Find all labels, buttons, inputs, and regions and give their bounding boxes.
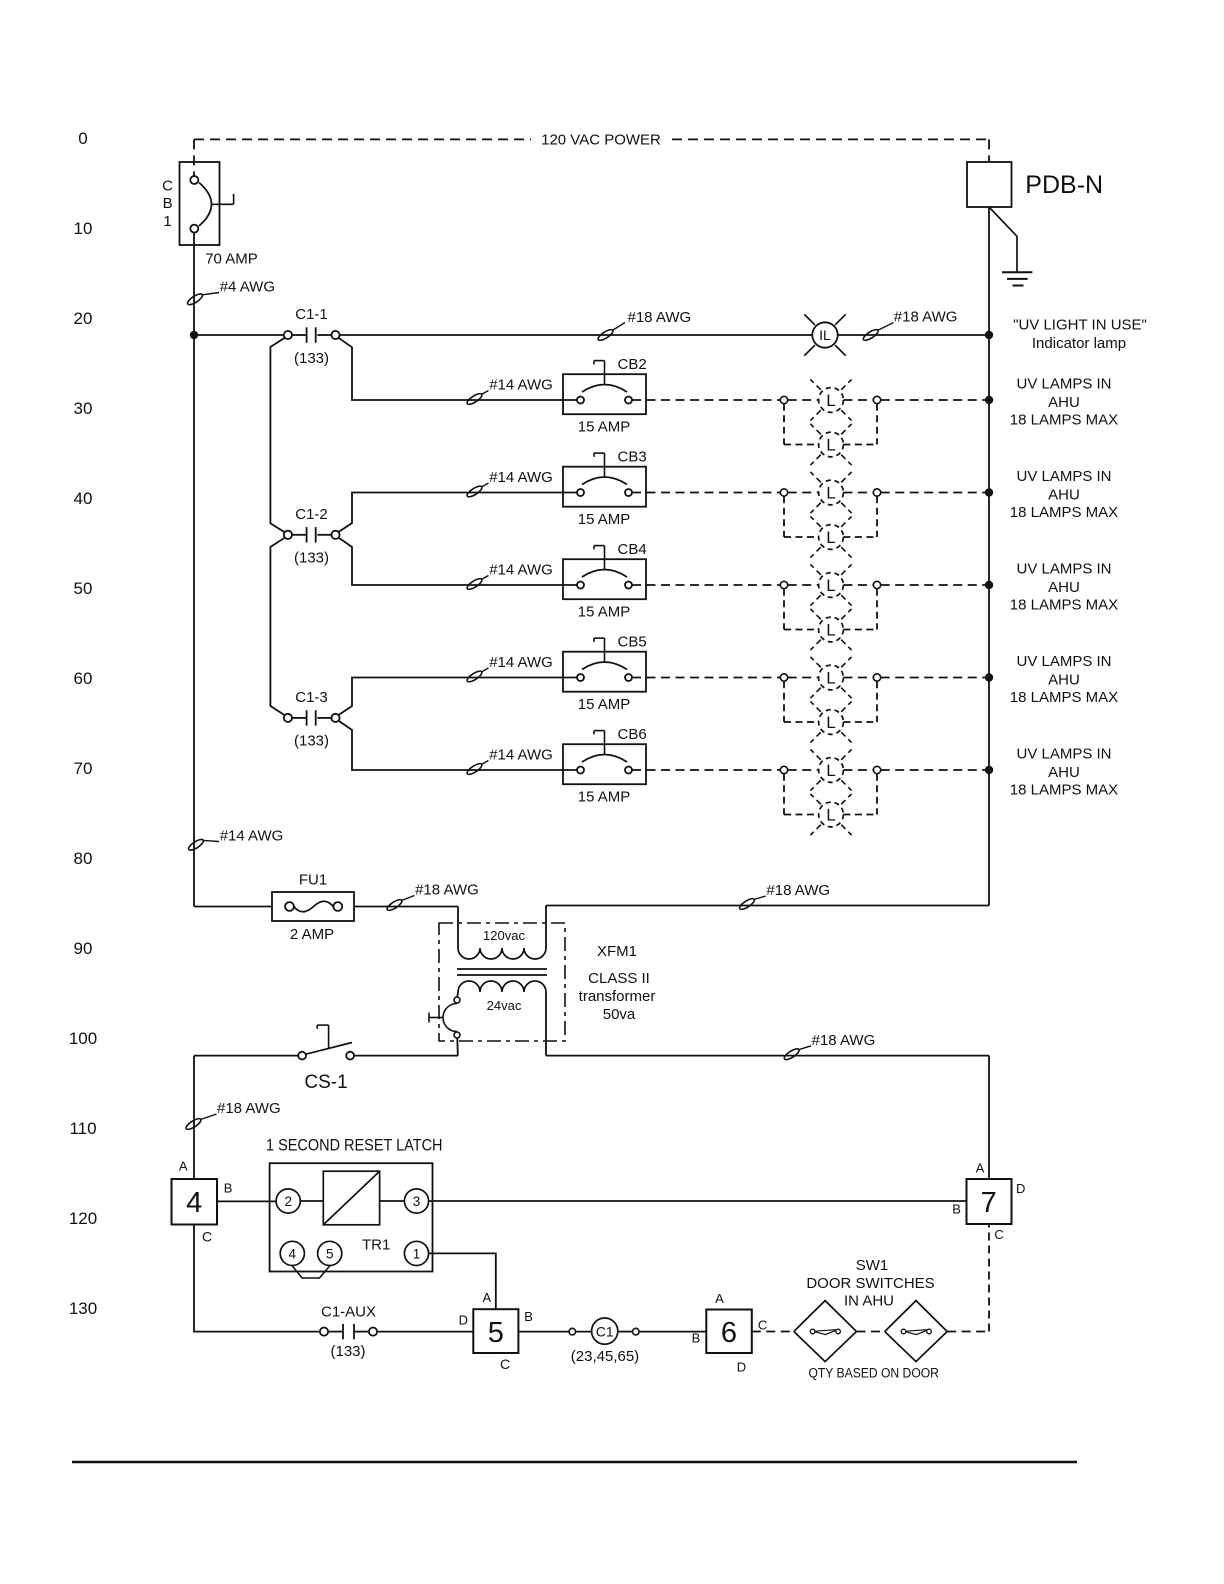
svg-text:110: 110 [69,1119,96,1138]
wire: left bus corner into FU1 [194,906,272,908]
wire: dashed parallel loop to lower lamp of CB4 group [784,589,877,630]
svg-text:20: 20 [74,309,93,328]
wire: primary return to right bus [545,906,547,949]
svg-text:0: 0 [78,129,87,148]
svg-text:4: 4 [186,1187,202,1219]
svg-text:UV LAMPS IN: UV LAMPS IN [1016,468,1111,485]
svg-text:5: 5 [488,1317,504,1349]
svg-text:24vac: 24vac [487,998,522,1013]
svg-text:#14 AWG: #14 AWG [489,654,553,671]
wire label: #14 AWG feed to CB4 [466,562,553,592]
svg-text:CB3: CB3 [618,449,647,466]
svg-text:L: L [826,436,835,455]
circuit breaker CB6 15 AMP [563,726,647,806]
svg-text:#18 AWG: #18 AWG [628,309,692,326]
wire: C1-2 right circle to CB4 feed (down) [339,538,577,585]
wire: dashed parallel loop to lower lamp of CB6 group [784,774,877,815]
svg-text:130: 130 [69,1299,97,1318]
wire label: #18 AWG secondary right [783,1046,811,1062]
svg-text:C1-2: C1-2 [295,506,328,523]
lamp L (upper) of CB6 group [810,749,851,790]
wire: main row from left bus to contact C1-1 [194,334,284,336]
wire: dashed door switches to box 7 C [947,1331,989,1333]
svg-text:50: 50 [74,579,93,598]
svg-text:UV LAMPS IN: UV LAMPS IN [1016,376,1111,393]
lamp L (lower) of CB5 group [810,701,851,742]
lamp L (upper) of CB2 group [810,379,851,420]
svg-text:A: A [715,1291,724,1306]
svg-text:C: C [994,1227,1003,1242]
transformer XFM1 class II [429,906,989,1056]
wire: dashed parallel loop to lower lamp of CB2 group [784,404,877,445]
svg-text:80: 80 [74,849,93,868]
wire: dashed drop to CB1 line side [193,139,195,176]
svg-text:3: 3 [413,1194,421,1209]
node: lamp tap circles row CB6 [780,766,880,773]
wire: CB1 load side down left bus [193,233,195,335]
wire label: #18 AWG transformer to right bus [738,896,766,911]
svg-text:1 SECOND RESET LATCH: 1 SECOND RESET LATCH [266,1136,443,1155]
svg-text:15 AMP: 15 AMP [578,696,631,713]
wire label: #14 AWG feed to CB3 [466,469,553,499]
switch CS-1 (control switch) [194,1055,298,1057]
svg-text:CB4: CB4 [618,541,647,558]
svg-text:C: C [202,1228,212,1244]
wire: C1-3 right circle to CB6 feed (down) [339,721,577,770]
svg-text:B: B [163,195,173,212]
svg-text:#18 AWG: #18 AWG [812,1032,876,1049]
pin 3 of TR1 [404,1189,428,1213]
svg-text:(133): (133) [330,1343,365,1360]
svg-text:XFM1: XFM1 [597,943,637,960]
svg-text:15 AMP: 15 AMP [578,604,631,621]
svg-text:UV LAMPS IN: UV LAMPS IN [1016,561,1111,578]
lamp L (upper) of CB4 group [810,564,851,605]
svg-text:AHU: AHU [1048,579,1080,596]
svg-text:2 AMP: 2 AMP [290,926,334,943]
node: lamp tap circles row CB2 [780,396,880,403]
latch function block with diagonal [323,1171,379,1225]
border: bottom rule [72,1461,1077,1463]
pin 4 of TR1 [280,1241,304,1265]
svg-text:L: L [826,761,835,780]
annotation: UV LIGHT IN USE indicator lamp [1013,316,1147,352]
svg-text:90: 90 [74,939,93,958]
svg-text:B: B [224,1181,233,1196]
wire: dashed drop to PDB-N [988,139,990,162]
svg-text:(133): (133) [294,350,329,367]
pin 1 of TR1 [404,1241,428,1265]
wire label: #18 AWG left of IL with marker [597,323,625,343]
svg-text:#18 AWG: #18 AWG [766,882,830,899]
svg-text:AHU: AHU [1048,764,1080,781]
svg-text:18 LAMPS MAX: 18 LAMPS MAX [1010,412,1118,429]
connection box 5 [473,1309,518,1353]
annotation: UV LAMPS IN AHU row 1 [1010,376,1118,429]
svg-text:#14 AWG: #14 AWG [489,747,553,764]
svg-text:120: 120 [69,1209,97,1228]
node: lamp tap circles row CB4 [780,581,880,588]
svg-text:PDB-N: PDB-N [1025,171,1103,199]
svg-text:D: D [1016,1181,1025,1196]
node: lamp tap circles row CB3 [780,489,880,496]
node: junction lamp row CB4 at right bus [985,581,993,589]
svg-text:L: L [826,528,835,547]
svg-text:C1-AUX: C1-AUX [321,1304,376,1321]
svg-text:"UV LIGHT IN USE": "UV LIGHT IN USE" [1013,316,1147,333]
wire label: #4 AWG with marker [186,292,219,307]
svg-text:C: C [500,1356,510,1372]
svg-text:18 LAMPS MAX: 18 LAMPS MAX [1010,597,1118,614]
svg-text:CB5: CB5 [618,634,647,651]
svg-text:C: C [758,1317,767,1332]
svg-text:#14 AWG: #14 AWG [489,469,553,486]
lamp L (lower) of CB3 group [810,516,851,557]
svg-text:1: 1 [413,1246,421,1261]
svg-text:2: 2 [284,1194,292,1209]
svg-text:18 LAMPS MAX: 18 LAMPS MAX [1010,504,1118,521]
svg-text:Indicator lamp: Indicator lamp [1032,335,1126,352]
door switch SW1 (second) [885,1301,948,1362]
svg-text:UV LAMPS IN: UV LAMPS IN [1016,653,1111,670]
wire: dashed lamp circuit from CB3 to lamps [632,492,989,494]
wire: jumper between pins 4 and 5 [292,1266,330,1279]
svg-text:UV LAMPS IN: UV LAMPS IN [1016,746,1111,763]
svg-text:15 AMP: 15 AMP [578,789,631,806]
node: junction lamp row CB2 at right bus [985,396,993,404]
circuit breaker CB5 15 AMP [563,634,647,714]
svg-text:AHU: AHU [1048,487,1080,504]
wire: box 4 B to latch input 2 [217,1200,276,1202]
wire: dashed parallel loop to lower lamp of CB3 group [784,496,877,537]
wire: dashed lamp circuit from CB5 to lamps [632,677,989,679]
svg-text:IN AHU: IN AHU [844,1293,894,1310]
svg-text:L: L [826,484,835,503]
wire label: #14 AWG on left bus with marker [187,838,219,853]
lamp L (lower) of CB2 group [810,424,851,465]
wire label: #14 AWG feed to CB2 [466,377,553,407]
wire: dashed lamp circuit from CB6 to lamps [632,769,989,771]
svg-text:(133): (133) [294,550,329,567]
connection box 6 [706,1310,752,1354]
wire label: #18 AWG left control with marker [185,1114,217,1131]
svg-text:TR1: TR1 [362,1236,390,1253]
svg-text:6: 6 [721,1317,737,1349]
svg-text:L: L [826,621,835,640]
svg-text:CLASS II: CLASS II [588,970,650,987]
svg-text:#18 AWG: #18 AWG [894,309,958,326]
pin 2 of TR1 [276,1189,300,1213]
svg-text:15 AMP: 15 AMP [578,419,631,436]
wire: left control bus down to box 4 [193,1056,195,1179]
circuit breaker CB4 15 AMP [563,541,647,621]
node: row scale numbers (left margin) [69,129,97,1318]
coil C1 (23,45,65) [569,1328,576,1335]
svg-text:#18 AWG: #18 AWG [415,881,479,898]
svg-text:FU1: FU1 [299,872,327,889]
svg-text:AHU: AHU [1048,672,1080,689]
svg-text:4: 4 [289,1246,297,1261]
svg-text:B: B [692,1330,701,1345]
svg-text:15 AMP: 15 AMP [578,511,631,528]
svg-text:QTY BASED ON DOOR: QTY BASED ON DOOR [808,1365,939,1380]
svg-text:C1: C1 [596,1323,614,1339]
lamp L (lower) of CB4 group [810,609,851,650]
wire: right control drop to box 7 [988,1056,990,1179]
node: junction lamp row CB6 at right bus [985,766,993,774]
svg-text:L: L [826,669,835,688]
component label: XFM1 CLASS II transformer 50va [579,943,656,1023]
connection box 4 [172,1179,218,1225]
svg-text:5: 5 [326,1246,334,1261]
annotation: UV LAMPS IN AHU row 3 [1010,561,1118,614]
svg-text:50va: 50va [603,1006,636,1023]
svg-text:DOOR SWITCHES: DOOR SWITCHES [806,1275,934,1292]
circuit breaker CB3 15 AMP [563,449,647,529]
contact C1-1 (NO) of C1 [284,331,292,339]
wire: C1-3 right circle to CB5 feed (up) [339,678,577,716]
wire: CS-1 to transformer secondary [354,1055,458,1057]
node: junction at left bus / main row [190,331,198,339]
svg-text:(23,45,65): (23,45,65) [571,1348,639,1365]
wire: C1-2 left circle branch down to C1-3 [270,538,284,716]
svg-text:1: 1 [163,213,171,230]
wire: box 4 C down and right to C1-AUX [194,1225,320,1332]
svg-text:B: B [952,1202,961,1217]
svg-text:#14 AWG: #14 AWG [220,828,284,845]
svg-text:120 VAC POWER: 120 VAC POWER [541,131,661,148]
node: junction main row / right bus [985,331,993,339]
svg-text:B: B [524,1309,533,1324]
wire: C1-AUX to box 5 D [377,1331,473,1333]
svg-text:#14 AWG: #14 AWG [489,377,553,394]
svg-text:IL: IL [819,327,831,343]
annotation: UV LAMPS IN AHU row 2 [1010,468,1118,521]
wire label: #18 AWG after FU1 [386,896,415,913]
contact C1-3 (NO) of C1 [284,714,292,722]
wire: main row from C1-1 to indicator lamp [340,334,812,336]
pin 5 of TR1 [318,1241,342,1265]
svg-text:CB2: CB2 [618,356,647,373]
wire: box 5 B to coil C1 [518,1331,569,1333]
contact C1-2 (NO) of C1 [284,531,292,539]
svg-text:A: A [976,1161,985,1176]
lamp L (upper) of CB3 group [810,472,851,513]
wire: dashed between door switches [857,1331,885,1333]
annotation: SW1 DOOR SWITCHES IN AHU [806,1257,934,1310]
wire label: #14 AWG feed to CB6 [466,747,553,777]
fuse FU1 2 AMP [272,892,354,921]
door switch SW1 (first) [794,1301,857,1362]
circuit breaker CB2 15 AMP [563,356,647,436]
node: junction lamp row CB5 at right bus [985,673,993,681]
svg-text:#4 AWG: #4 AWG [220,279,275,296]
svg-text:40: 40 [74,489,93,508]
svg-text:100: 100 [69,1029,97,1048]
svg-text:18 LAMPS MAX: 18 LAMPS MAX [1010,689,1118,706]
svg-text:D: D [737,1360,746,1375]
annotation: UV LAMPS IN AHU row 5 [1010,746,1118,799]
wire: 120 VAC POWER dashed feeder [194,138,531,140]
svg-text:L: L [826,391,835,410]
wire: latch pin 3 to box 7 B [429,1200,967,1202]
ground: PDB-N earth ground symbol [989,207,1017,236]
lamp L (upper) of CB5 group [810,657,851,698]
wire: latch pin 1 to box 5 A [429,1253,496,1309]
svg-text:L: L [826,806,835,825]
svg-text:70: 70 [74,759,93,778]
svg-text:#18 AWG: #18 AWG [217,1100,281,1117]
contact C1-AUX (auxiliary) of C1 [320,1328,328,1336]
svg-text:CB6: CB6 [618,726,647,743]
svg-text:120vac: 120vac [483,928,525,943]
wire label: #14 AWG feed to CB5 [466,654,553,684]
wire: right bus (neutral) from PDB-N down [988,207,990,906]
wire label: #18 AWG right of IL with marker [862,323,894,343]
annotation: UV LAMPS IN AHU row 4 [1010,653,1118,706]
svg-text:(133): (133) [294,733,329,750]
wire: coil C1 to box 6 B [639,1331,706,1333]
lamp L (lower) of CB6 group [810,794,851,835]
wire: C1-2 right circle to CB3 feed (up) [339,493,577,533]
wire: dashed lamp circuit from CB2 to lamps [632,399,989,401]
svg-text:L: L [826,576,835,595]
svg-text:70 AMP: 70 AMP [205,251,258,268]
svg-text:C1-3: C1-3 [295,689,328,706]
svg-text:A: A [179,1158,188,1173]
terminal block PDB-N [967,162,1012,207]
wire: left bus from node down to FU1 [193,335,195,907]
svg-text:18 LAMPS MAX: 18 LAMPS MAX [1010,782,1118,799]
circuit breaker CB1 [180,162,220,245]
node: lamp tap circles row CB5 [780,674,880,681]
svg-text:60: 60 [74,669,93,688]
svg-text:SW1: SW1 [856,1257,889,1274]
svg-text:D: D [459,1313,468,1328]
wire: dashed lamp circuit from CB4 to lamps [632,584,989,586]
svg-text:A: A [482,1290,491,1305]
svg-text:CS-1: CS-1 [304,1072,347,1093]
wire: dashed box 6 C to door switch SW1 [752,1331,794,1333]
connection box 7 [967,1179,1012,1224]
wire: FU1 to transformer primary [354,906,458,908]
svg-text:L: L [826,713,835,732]
wire: C1-1 left circle branch down to C1-2 [270,338,284,533]
wire: main row from IL to right bus [838,334,989,336]
node: junction lamp row CB3 at right bus [985,488,993,496]
wire: secondary to control circuit right side [546,1055,989,1057]
indicator lamp IL - UV LIGHT IN USE [812,322,837,347]
svg-text:30: 30 [74,399,93,418]
wire: dashed parallel loop to lower lamp of CB5 group [784,681,877,722]
svg-text:10: 10 [74,219,93,238]
wire: C1-1 right circle to CB2 feed [339,338,577,400]
svg-text:#14 AWG: #14 AWG [489,562,553,579]
svg-text:C: C [162,177,173,194]
svg-text:AHU: AHU [1048,394,1080,411]
svg-text:C1-1: C1-1 [295,306,328,323]
svg-text:transformer: transformer [579,988,656,1005]
svg-text:7: 7 [981,1187,997,1219]
